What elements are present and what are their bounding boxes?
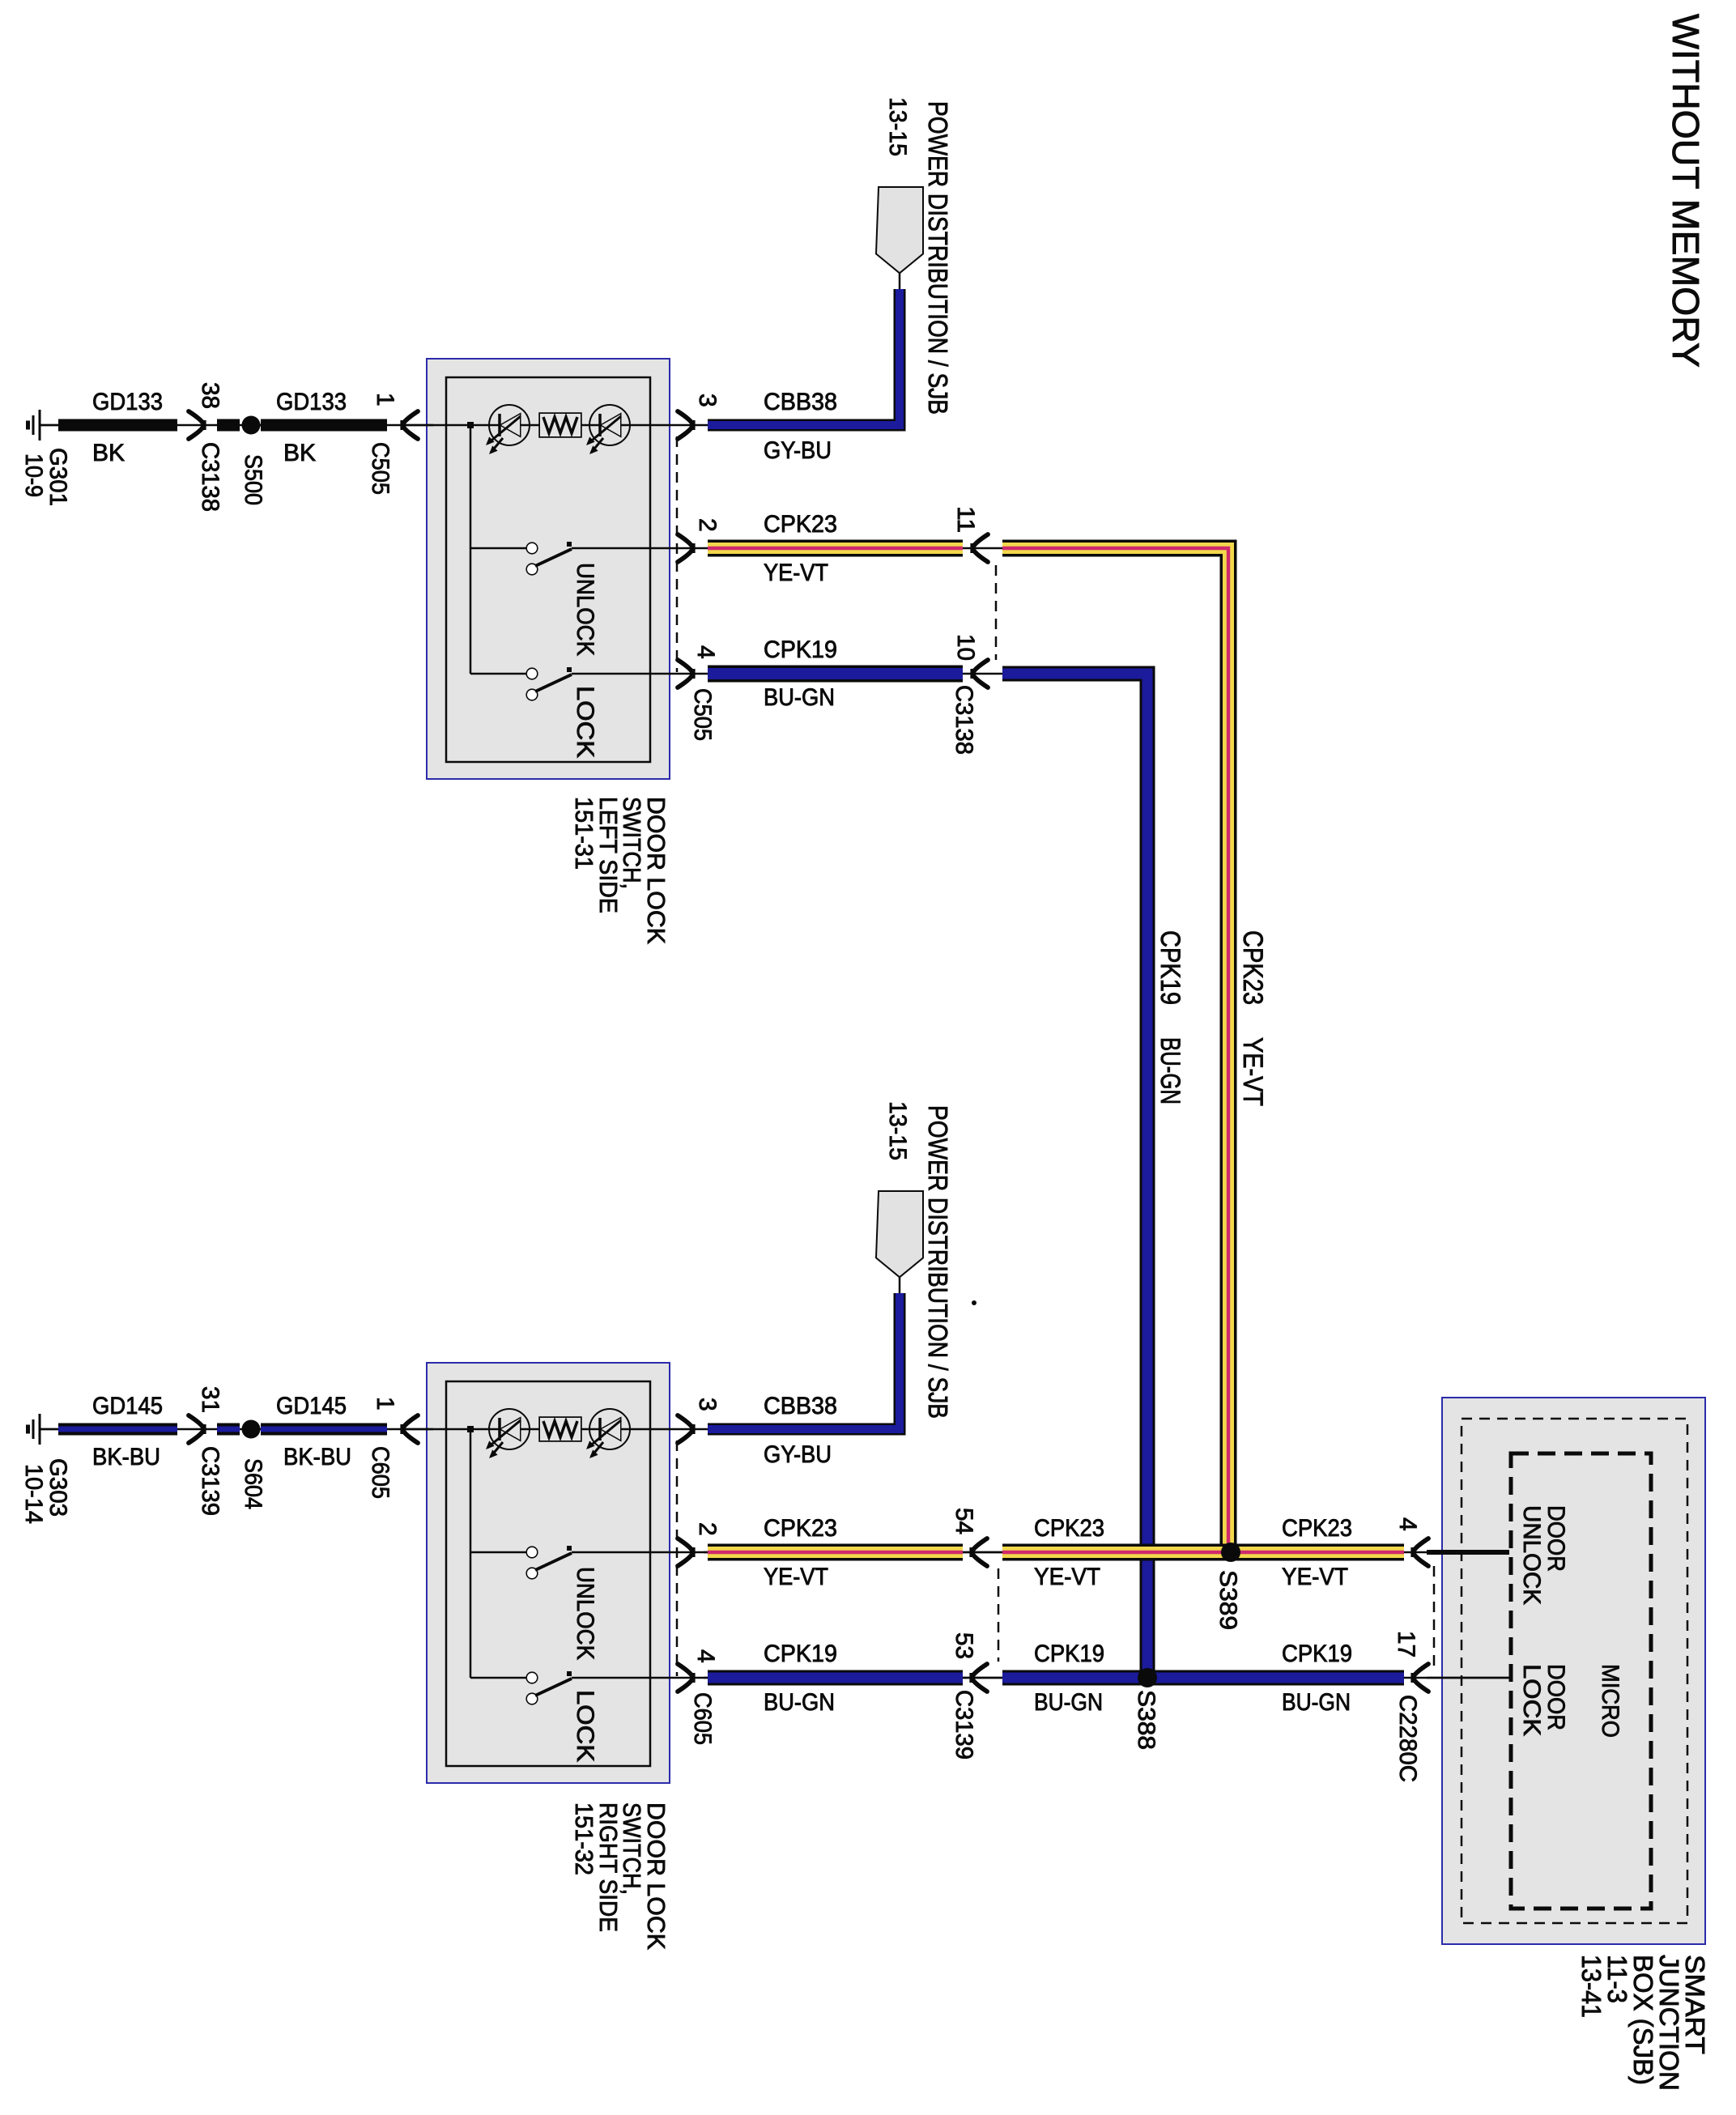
splice S500 — [242, 416, 261, 435]
wire GD145 BK-BU short segment — [217, 1423, 240, 1436]
ground label G303 — [20, 1458, 71, 1524]
label splice S500 — [240, 454, 266, 505]
connector arrow C3139 pin 54 — [971, 1538, 987, 1566]
svg-text:BU-GN: BU-GN — [1282, 1689, 1351, 1716]
wire CPK23 YE-VT (row segment 1) — [708, 1544, 963, 1561]
wire CPK23 YE-VT (row segment 2) — [1002, 1544, 1404, 1561]
svg-text:BK-BU: BK-BU — [92, 1444, 160, 1470]
label 13-15 (lower) — [884, 1101, 911, 1160]
label GY-BU (upper) — [764, 437, 832, 464]
wire DOOR UNLOCK stub — [1427, 1550, 1509, 1555]
label splice S604 — [240, 1458, 266, 1509]
svg-text:G301: G301 — [45, 448, 71, 506]
svg-text:YE-VT: YE-VT — [1034, 1564, 1100, 1590]
svg-text:BK: BK — [92, 440, 125, 466]
label CPK19 (row seg1) — [764, 1641, 837, 1667]
connector dashed boundary C2280C — [1433, 1566, 1436, 1668]
wire GD145 BK-BU segment 1 — [58, 1423, 177, 1436]
label GD133 segment 1 — [92, 389, 163, 415]
wire thin line CPK23 row — [704, 1551, 1509, 1554]
wire thin line pin 3 — [650, 424, 711, 427]
svg-text:GD145: GD145 — [92, 1393, 163, 1419]
svg-text:YE-VT: YE-VT — [1237, 1037, 1268, 1106]
svg-text:LOCK: LOCK — [1518, 1664, 1545, 1736]
connector arrow pin 2 — [678, 534, 694, 562]
wire GD133 BK short segment — [217, 419, 240, 432]
label CPK23 (row seg2) — [1034, 1515, 1104, 1542]
svg-text:UNLOCK: UNLOCK — [572, 563, 598, 656]
svg-text:BU-GN: BU-GN — [1155, 1037, 1185, 1104]
label pin 54 — [951, 1508, 977, 1534]
svg-text:S500: S500 — [240, 454, 266, 505]
label splice S388 — [1133, 1690, 1159, 1750]
label CPK23 (upper) — [764, 511, 837, 538]
internal feed bus (left switch) — [467, 422, 526, 674]
SJB micro dashed block — [1511, 1453, 1651, 1909]
label pin 1 (C605) — [372, 1397, 398, 1411]
label pin 17 — [1393, 1631, 1419, 1658]
connector arrow C2280C pin 4 — [1412, 1538, 1428, 1566]
label pin 2 — [694, 518, 721, 532]
label pin 53 — [951, 1632, 977, 1659]
svg-text:BK-BU: BK-BU — [283, 1444, 351, 1470]
svg-text:GY-BU: GY-BU — [764, 1441, 832, 1468]
svg-text:CPK19: CPK19 — [764, 636, 837, 663]
switch LOCK (left) — [527, 667, 650, 700]
label YE-VT (vertical) — [1237, 1037, 1268, 1106]
svg-text:S604: S604 — [240, 1458, 266, 1509]
switch UNLOCK (right) — [527, 1546, 650, 1578]
label pin 3 — [694, 1398, 721, 1411]
label YE-VT (row seg3) — [1282, 1564, 1348, 1590]
label MICRO — [1597, 1664, 1623, 1738]
label connector (right of box) — [689, 1692, 716, 1745]
label splice S389 — [1215, 1570, 1241, 1630]
label CBB38 (lower) — [764, 1393, 837, 1419]
svg-text:53: 53 — [951, 1632, 977, 1659]
LED indicator lamp 1 (right switch) — [486, 1410, 529, 1458]
connector dashed boundary C3139 (mid) — [998, 1568, 1000, 1662]
svg-text:CPK19: CPK19 — [1034, 1641, 1104, 1667]
svg-text:1: 1 — [372, 1397, 398, 1411]
splice S389 — [1221, 1543, 1240, 1562]
wire CPK19 BU-GN (row segment 2) — [1002, 1670, 1404, 1686]
wire GD145 BK-BU segment 2 — [261, 1423, 387, 1436]
svg-text:G303: G303 — [45, 1458, 71, 1517]
label BU-GN (row seg1) — [764, 1689, 835, 1716]
connector arrow pin 4 — [678, 1664, 694, 1692]
label connector C3138 — [197, 442, 223, 512]
svg-text:54: 54 — [951, 1508, 977, 1534]
label pin 10 — [952, 634, 979, 661]
wire thin line CPK19 row — [704, 1677, 1509, 1679]
label GD145 segment 1 — [92, 1393, 163, 1419]
label UNLOCK (left) — [572, 563, 598, 656]
svg-text:10-14: 10-14 — [20, 1464, 47, 1524]
label DOOR UNLOCK — [1518, 1505, 1569, 1605]
svg-text:UNLOCK: UNLOCK — [1518, 1505, 1545, 1605]
svg-text:UNLOCK: UNLOCK — [572, 1567, 598, 1660]
power distribution connector symbol (upper) — [877, 188, 922, 292]
label connector C3139 (mid) — [951, 1690, 977, 1760]
label CPK23 (vertical) — [1237, 930, 1268, 1005]
svg-text:GD133: GD133 — [276, 389, 347, 415]
label BU-GN (vertical) — [1155, 1037, 1185, 1104]
internal feed wire (right switch) — [405, 1428, 650, 1431]
internal feed wire (left switch) — [405, 424, 650, 427]
label GY-BU (lower) — [764, 1441, 832, 1468]
wire CBB38 GY-BU (upper) — [708, 289, 900, 425]
svg-text:GD133: GD133 — [92, 389, 163, 415]
svg-text:11: 11 — [952, 506, 979, 533]
connector arrow C505 pin 1 — [402, 411, 418, 439]
label connector C505 (left) — [367, 442, 394, 495]
svg-text:151-32: 151-32 — [570, 1802, 598, 1875]
svg-text:C605: C605 — [689, 1692, 716, 1745]
svg-text:1: 1 — [372, 393, 398, 406]
svg-text:3: 3 — [694, 394, 721, 407]
svg-text:C2280C: C2280C — [1394, 1695, 1421, 1782]
label POWER DISTRIBUTION / SJB (upper) — [923, 101, 953, 415]
label connector C3138 (mid) — [951, 685, 977, 755]
ground G301 — [28, 410, 59, 440]
svg-text:10: 10 — [952, 634, 979, 661]
svg-text:YE-VT: YE-VT — [1282, 1564, 1348, 1590]
wire DOOR LOCK stub — [1427, 1677, 1509, 1679]
title WITHOUT MEMORY — [1665, 14, 1707, 368]
label BK segment 1 — [92, 440, 125, 466]
wire thin line pin 2 — [650, 1551, 1006, 1554]
label pin 2 — [694, 1522, 721, 1536]
LED indicator lamp 2 (right switch) — [586, 1410, 629, 1458]
svg-text:BU-GN: BU-GN — [764, 1689, 835, 1716]
svg-text:13-15: 13-15 — [884, 1101, 911, 1160]
label LOCK (right) — [572, 1690, 598, 1762]
label pin 3 — [694, 394, 721, 407]
svg-text:13-41: 13-41 — [1576, 1955, 1606, 2018]
connector arrow pin 3 — [678, 411, 694, 439]
label GD133 segment 2 — [276, 389, 347, 415]
illumination resistor (left switch) — [540, 414, 581, 436]
wire thin line ground chain G303 — [40, 1428, 433, 1431]
caption smart junction box — [1576, 1955, 1710, 2091]
label LOCK (left) — [572, 686, 598, 758]
node dot (scan mark) — [972, 1300, 976, 1305]
wire CBB38 GY-BU (lower) — [708, 1293, 900, 1429]
wire GD133 BK segment 2 — [261, 419, 387, 432]
label BK-BU segment 1 — [92, 1444, 160, 1470]
label CPK19 (vertical) — [1155, 930, 1185, 1005]
label BK segment 2 — [283, 440, 316, 466]
svg-text:DOOR: DOOR — [1542, 1664, 1569, 1730]
svg-text:BK: BK — [283, 440, 316, 466]
svg-text:31: 31 — [197, 1386, 223, 1413]
ground label G301 — [20, 448, 71, 506]
label BK-BU segment 2 — [283, 1444, 351, 1470]
svg-text:C505: C505 — [689, 688, 716, 741]
svg-text:CPK23: CPK23 — [1282, 1515, 1352, 1542]
connector arrow C605 pin 1 — [402, 1415, 418, 1443]
connector arrow C3139 pin 53 — [971, 1664, 987, 1692]
label YE-VT (row seg2) — [1034, 1564, 1100, 1590]
svg-text:MICRO: MICRO — [1597, 1664, 1623, 1738]
svg-text:10-9: 10-9 — [20, 453, 47, 497]
power distribution connector symbol (lower) — [877, 1192, 922, 1296]
label CPK19 (row seg2) — [1034, 1641, 1104, 1667]
label CPK19 (upper) — [764, 636, 837, 663]
svg-text:C3138: C3138 — [951, 685, 977, 755]
svg-text:BU-GN: BU-GN — [1034, 1689, 1103, 1716]
svg-text:4: 4 — [692, 1649, 719, 1663]
label connector C605 (left) — [367, 1446, 394, 1499]
connector dashed boundary at switch box — [676, 1440, 679, 1676]
label CPK23 (row seg3) — [1282, 1515, 1352, 1542]
wire thin line ground chain G301 — [40, 424, 433, 427]
label pin 4 (C2280C) — [1394, 1517, 1421, 1531]
ground G303 — [28, 1414, 59, 1445]
label pin 11 — [952, 506, 979, 533]
connector dashed boundary at switch box — [676, 436, 679, 672]
label connector (right of box) — [689, 688, 716, 741]
svg-text:S389: S389 — [1215, 1570, 1241, 1630]
switch UNLOCK (left) — [527, 542, 650, 574]
svg-text:DOOR: DOOR — [1542, 1505, 1569, 1572]
connector arrow C3138 pin 38 — [189, 411, 205, 439]
svg-text:151-31: 151-31 — [570, 797, 598, 870]
label pin 31 — [197, 1386, 223, 1413]
wire thin line pin 3 — [650, 1428, 711, 1431]
label pin 38 — [197, 382, 223, 409]
connector arrow C3138 pin 10 — [972, 660, 988, 687]
label UNLOCK (right) — [572, 1567, 598, 1660]
connector arrow pin 4 — [678, 660, 694, 687]
wire thin line pin 4 — [650, 673, 1006, 675]
connector dashed boundary C3138 (mid) — [995, 565, 998, 660]
svg-text:CPK19: CPK19 — [764, 1641, 837, 1667]
connector arrow C3138 pin 11 — [972, 534, 988, 562]
svg-text:C3139: C3139 — [951, 1690, 977, 1760]
wire CPK19 BU-GN (vertical run) — [1002, 674, 1147, 1678]
wire GD133 BK segment 1 — [58, 419, 177, 432]
svg-text:3: 3 — [694, 1398, 721, 1411]
connector arrow pin 2 — [678, 1538, 694, 1566]
svg-text:13-15: 13-15 — [884, 97, 911, 156]
svg-text:CPK19: CPK19 — [1282, 1641, 1352, 1667]
svg-text:YE-VT: YE-VT — [764, 1564, 828, 1590]
svg-text:C3138: C3138 — [197, 442, 223, 512]
splice S388 — [1138, 1668, 1157, 1687]
SJB inner dashed boundary — [1462, 1419, 1687, 1923]
label BU-GN (row seg2) — [1034, 1689, 1103, 1716]
svg-text:CPK23: CPK23 — [764, 1515, 837, 1542]
svg-text:POWER DISTRIBUTION / SJB: POWER DISTRIBUTION / SJB — [923, 101, 953, 415]
wire CPK19 BU-GN (row segment 1) — [708, 1670, 963, 1686]
wire CPK23 YE-VT (vertical run) — [1002, 548, 1228, 1551]
label CBB38 (upper) — [764, 389, 837, 415]
illumination resistor (right switch) — [540, 1418, 581, 1440]
svg-text:CPK23: CPK23 — [1237, 930, 1268, 1005]
label connector C2280C — [1394, 1695, 1421, 1782]
svg-text:GD145: GD145 — [276, 1393, 347, 1419]
svg-text:GY-BU: GY-BU — [764, 437, 832, 464]
wire CPK19 BU-GN (upper segment) — [708, 666, 963, 683]
LED indicator lamp 2 (left switch) — [586, 406, 629, 454]
caption door lock switch left side — [570, 797, 670, 944]
svg-text:S388: S388 — [1133, 1690, 1159, 1750]
switch LOCK (right) — [527, 1671, 650, 1704]
svg-text:4: 4 — [692, 645, 719, 659]
svg-text:CBB38: CBB38 — [764, 389, 837, 415]
svg-text:WITHOUT MEMORY: WITHOUT MEMORY — [1665, 14, 1707, 368]
label BU-GN (upper) — [764, 684, 835, 711]
svg-text:CBB38: CBB38 — [764, 1393, 837, 1419]
wire CPK23 YE-VT (upper segment) — [708, 540, 963, 557]
label pin 4 — [692, 1649, 719, 1663]
label GD145 segment 2 — [276, 1393, 347, 1419]
svg-text:CPK19: CPK19 — [1155, 930, 1185, 1005]
svg-text:POWER DISTRIBUTION / SJB: POWER DISTRIBUTION / SJB — [923, 1105, 953, 1419]
svg-text:LOCK: LOCK — [572, 686, 598, 758]
label connector C3139 — [197, 1446, 223, 1516]
door lock switch, left side box outline — [428, 360, 669, 778]
svg-text:C505: C505 — [367, 442, 394, 495]
LED indicator lamp 1 (left switch) — [486, 406, 529, 454]
svg-text:LOCK: LOCK — [572, 1690, 598, 1762]
splice S604 — [242, 1420, 261, 1439]
label YE-VT (row seg1) — [764, 1564, 828, 1590]
svg-text:4: 4 — [1394, 1517, 1421, 1531]
connector arrow C2280C pin 17 — [1412, 1664, 1428, 1692]
label CPK19 (row seg3) — [1282, 1641, 1352, 1667]
label 13-15 (upper) — [884, 97, 911, 156]
label pin 4 — [692, 645, 719, 659]
internal feed bus (right switch) — [467, 1426, 526, 1678]
svg-text:BU-GN: BU-GN — [764, 684, 835, 711]
svg-text:38: 38 — [197, 382, 223, 409]
label YE-VT (upper) — [764, 560, 828, 586]
caption door lock switch right side — [570, 1802, 670, 1950]
svg-text:2: 2 — [694, 518, 721, 532]
wire thin line pin 2 — [650, 547, 1006, 550]
svg-text:C3139: C3139 — [197, 1446, 223, 1516]
label DOOR LOCK — [1518, 1664, 1569, 1736]
svg-text:CPK23: CPK23 — [764, 511, 837, 538]
wire thin line pin 4 — [650, 1677, 1006, 1679]
label BU-GN (row seg3) — [1282, 1689, 1351, 1716]
svg-text:CPK23: CPK23 — [1034, 1515, 1104, 1542]
door lock switch, right side box outline — [428, 1364, 669, 1782]
svg-text:17: 17 — [1393, 1631, 1419, 1658]
connector arrow pin 3 — [678, 1415, 694, 1443]
svg-text:C605: C605 — [367, 1446, 394, 1499]
svg-text:2: 2 — [694, 1522, 721, 1536]
label CPK23 (row seg1) — [764, 1515, 837, 1542]
label POWER DISTRIBUTION / SJB (lower) — [923, 1105, 953, 1419]
svg-text:YE-VT: YE-VT — [764, 560, 828, 586]
label pin 1 (C505) — [372, 393, 398, 406]
smart junction box (SJB) outline — [1443, 1398, 1704, 1943]
connector arrow C3139 pin 31 — [189, 1415, 205, 1443]
